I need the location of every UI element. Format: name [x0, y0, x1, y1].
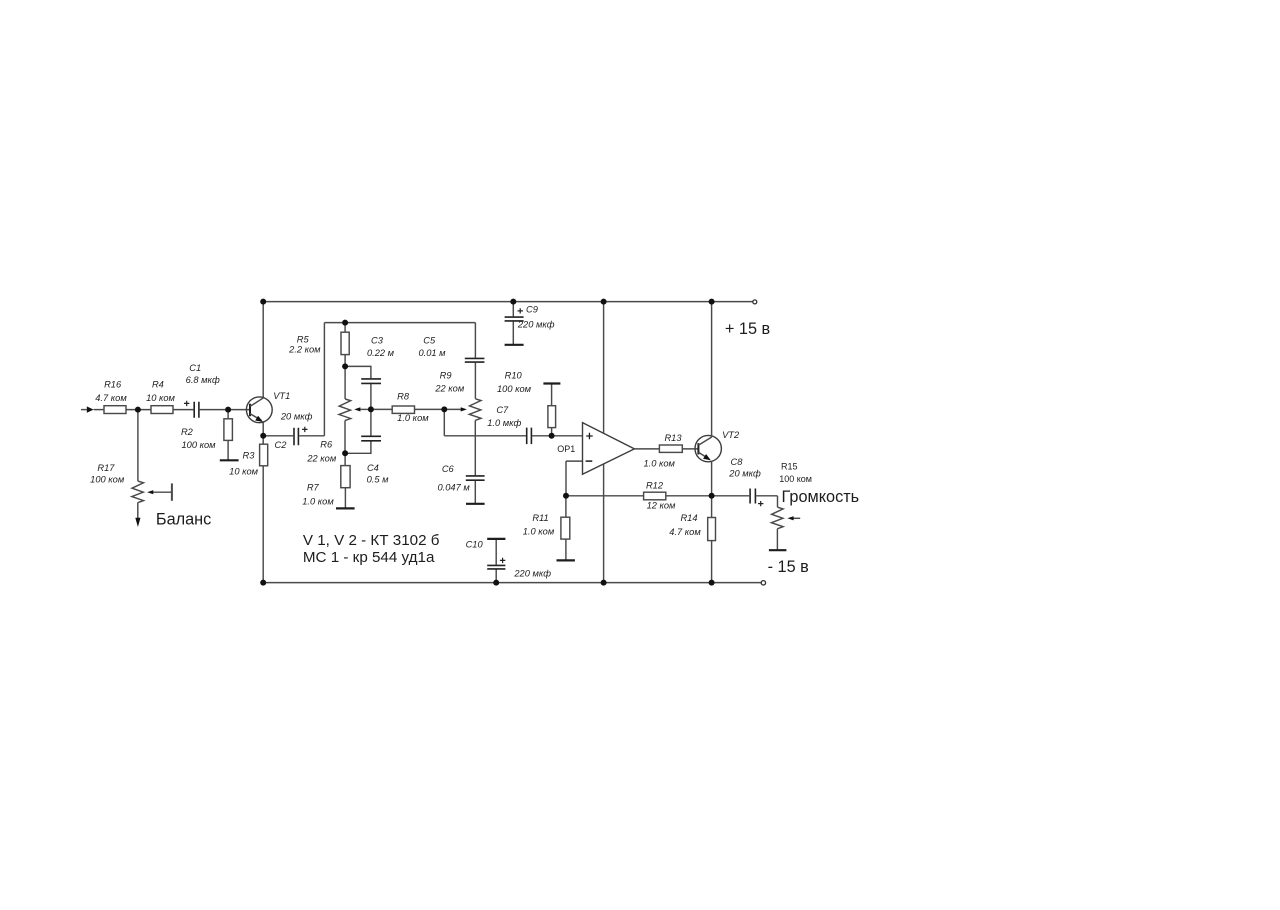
- svg-text:C1: C1: [189, 363, 201, 373]
- ground bar C6: [466, 503, 485, 505]
- wire VT1 emitter to node E1: [262, 422, 264, 436]
- svg-text:R16: R16: [104, 380, 122, 390]
- wire C10 stem top: [495, 539, 497, 565]
- resistor R5: [341, 332, 349, 354]
- svg-text:100 ком: 100 ком: [90, 474, 125, 484]
- capacitor C7 plates: [527, 428, 532, 445]
- svg-text:1.0 ком: 1.0 ком: [397, 413, 429, 423]
- open terminal bottom rail: [761, 581, 765, 585]
- svg-text:2.2 ком: 2.2 ком: [288, 345, 321, 355]
- node dot A input: [135, 407, 141, 413]
- svg-text:R6: R6: [320, 440, 333, 450]
- transistor VT2 emitter arrowhead: [703, 454, 711, 460]
- node dot rail2 R5: [342, 320, 348, 326]
- wire R17 to down arrow: [137, 503, 139, 519]
- wire R4 to C1: [173, 409, 193, 411]
- wire R11 to ground bar: [565, 539, 567, 560]
- capacitor C10 plus: [500, 558, 505, 563]
- transistor VT2 base bar: [697, 443, 699, 454]
- wire feedback node F1 to R12: [566, 495, 644, 497]
- svg-text:- 15 в: - 15 в: [768, 558, 809, 576]
- svg-text:20 мкф: 20 мкф: [728, 469, 761, 479]
- svg-text:R3: R3: [243, 451, 256, 461]
- capacitor C10 plates: [487, 565, 505, 569]
- wire node B to R2: [227, 410, 229, 419]
- op-amp plus sign: [586, 433, 593, 439]
- svg-text:V 1, V 2 - КТ 3102 б: V 1, V 2 - КТ 3102 б: [303, 532, 440, 549]
- wire node D to R7: [344, 453, 346, 465]
- svg-text:R13: R13: [664, 433, 682, 443]
- potentiometer R9 zigzag: [469, 399, 481, 421]
- svg-text:C8: C8: [731, 457, 744, 467]
- svg-text:МС 1 - кр 544 уд1а: МС 1 - кр 544 уд1а: [303, 549, 435, 566]
- svg-text:Громкость: Громкость: [782, 488, 860, 506]
- svg-text:1.0 ком: 1.0 ком: [523, 527, 555, 537]
- transistor VT1 emitter diagonal: [250, 414, 262, 421]
- wire R15 to ground bar: [776, 529, 778, 550]
- transistor VT1 circle: [246, 397, 272, 423]
- transistor VT2 circle: [695, 435, 721, 461]
- wire C3 to wiper node W1: [370, 384, 372, 409]
- ground bar R11: [557, 559, 575, 561]
- svg-text:Баланс: Баланс: [156, 511, 211, 529]
- resistor R10: [548, 406, 556, 428]
- wire node C to C3: [345, 366, 371, 378]
- svg-text:220 мкф: 220 мкф: [517, 320, 555, 330]
- wiper arrowhead R15: [787, 516, 793, 520]
- svg-text:22 ком: 22 ком: [434, 384, 464, 394]
- resistor R11: [561, 517, 570, 539]
- svg-text:C9: C9: [526, 305, 538, 315]
- svg-text:R15: R15: [781, 462, 798, 472]
- wire C9 stem top: [512, 302, 514, 317]
- capacitor C1 plates: [194, 402, 199, 418]
- node dot W2 R9 wiper: [441, 406, 447, 412]
- svg-text:R8: R8: [397, 392, 410, 402]
- wire C5 to R9: [474, 363, 476, 399]
- op-amp OP1 triangle: [583, 423, 635, 475]
- svg-text:1.0 ком: 1.0 ком: [643, 458, 675, 468]
- svg-text:10 ком: 10 ком: [229, 467, 258, 477]
- wire R14 to bottom rail: [711, 541, 713, 583]
- wire R7 to ground bar: [344, 488, 346, 509]
- wiper arrowhead R6: [354, 407, 360, 411]
- svg-text:220 мкф: 220 мкф: [513, 569, 551, 579]
- capacitor C9 plates: [505, 317, 524, 321]
- transistor VT1 collector diagonal: [250, 398, 264, 407]
- svg-text:C6: C6: [442, 464, 455, 474]
- op-amp minus sign: [586, 460, 593, 462]
- svg-text:4.7 ком: 4.7 ком: [669, 527, 701, 537]
- resistor R13: [659, 445, 682, 452]
- svg-text:6.8 мкф: 6.8 мкф: [186, 375, 220, 385]
- terminal bar R17 wiper: [171, 483, 173, 500]
- svg-text:C7: C7: [496, 405, 509, 415]
- svg-text:R2: R2: [181, 427, 194, 437]
- wire rail2 corner down to C5: [474, 323, 476, 358]
- svg-text:20 мкф: 20 мкф: [280, 412, 313, 422]
- resistor R7: [341, 466, 350, 488]
- resistor R16: [104, 406, 126, 414]
- wire node F2 to R14: [711, 496, 713, 518]
- node dot VT2 emitter net on bottom rail: [709, 580, 715, 586]
- svg-text:R9: R9: [440, 371, 452, 381]
- wire C1 to VT1 base through node B: [200, 409, 250, 411]
- svg-text:R4: R4: [152, 380, 164, 390]
- node dot P plus input: [549, 433, 555, 439]
- svg-text:C3: C3: [371, 335, 384, 345]
- wire R2 to ground bar: [227, 440, 229, 460]
- wire node F2 to C8: [712, 495, 750, 497]
- wiper arrowhead R17: [147, 490, 153, 494]
- wire C8 to R15: [756, 495, 777, 497]
- ground bar C9: [505, 344, 524, 346]
- down arrowhead R17 balance output: [135, 518, 140, 527]
- wire second rail: [324, 322, 475, 324]
- capacitor C4 plates: [361, 436, 381, 441]
- svg-text:0.01 м: 0.01 м: [418, 348, 446, 358]
- wire down to R15: [777, 496, 779, 507]
- R10 stem bottom to node P: [551, 428, 553, 436]
- wire C6 to end bar: [474, 481, 476, 504]
- wire node W1 to C4: [370, 409, 372, 435]
- terminal bar C10: [487, 538, 505, 540]
- wire R5 to node C: [344, 355, 346, 367]
- wire top +15V rail: [263, 301, 753, 303]
- node dot VT2 collector on top rail: [709, 299, 715, 305]
- node dot E1 emitter: [260, 433, 266, 439]
- wire C10 stem bottom: [495, 570, 497, 583]
- wire R3 to bottom rail: [262, 466, 264, 583]
- terminal bar R10: [543, 382, 560, 384]
- svg-text:R14: R14: [680, 513, 697, 523]
- capacitor C9 plus: [518, 308, 523, 313]
- svg-text:R10: R10: [505, 371, 523, 381]
- wire VT2 emitter down to node F2: [711, 462, 713, 496]
- node dot F1 feedback left: [563, 493, 569, 499]
- node dot mid rail top: [601, 299, 607, 305]
- wire node W2 to C7: [444, 435, 526, 437]
- svg-text:0.22 м: 0.22 м: [367, 348, 395, 358]
- node dot top rail left corner: [260, 299, 266, 305]
- svg-text:10 ком: 10 ком: [146, 393, 175, 403]
- ground bar R7: [336, 507, 355, 509]
- wire node E1 to R3: [262, 436, 264, 444]
- capacitor C2 plus: [302, 427, 307, 432]
- svg-text:C10: C10: [466, 539, 484, 549]
- svg-text:R12: R12: [646, 480, 664, 490]
- wire input line: [81, 409, 87, 411]
- wire minus input down to feedback node F1: [565, 461, 567, 496]
- wire bottom -15V rail: [263, 582, 761, 584]
- svg-text:4.7 ком: 4.7 ком: [95, 393, 127, 403]
- capacitor C2 plates: [294, 428, 298, 445]
- potentiometer R15 zigzag: [771, 507, 783, 529]
- transistor VT2 collector diagonal: [698, 437, 712, 445]
- svg-text:100 ком: 100 ком: [779, 474, 812, 484]
- svg-text:1.0 мкф: 1.0 мкф: [487, 418, 521, 428]
- open terminal top rail: [753, 300, 757, 304]
- transistor VT2 emitter diagonal: [698, 452, 708, 458]
- capacitor C1 plus: [184, 401, 189, 406]
- svg-text:OP1: OP1: [557, 444, 575, 454]
- op-amp U1 minus input wire: [566, 460, 583, 462]
- R10 stem top: [551, 384, 553, 406]
- svg-text:100 ком: 100 ком: [181, 440, 216, 450]
- svg-text:C4: C4: [367, 463, 379, 473]
- node dot C below R5: [342, 363, 348, 369]
- svg-text:0.047 м: 0.047 м: [437, 483, 470, 493]
- wire op-amp output to R13: [634, 448, 659, 450]
- resistor R14: [708, 518, 716, 541]
- node dot bottom rail left corner: [260, 580, 266, 586]
- ground bar R15: [769, 549, 787, 551]
- svg-text:0.5 м: 0.5 м: [367, 475, 390, 485]
- svg-text:C2: C2: [275, 440, 288, 450]
- capacitor C3 plates: [361, 379, 381, 384]
- node dot D below R6: [342, 450, 348, 456]
- svg-text:C5: C5: [423, 335, 436, 345]
- wire node W1 to R8: [371, 408, 392, 410]
- node dot C10 on bottom rail: [493, 580, 499, 586]
- wire C4 to node D: [345, 441, 371, 453]
- capacitor C8 plus: [758, 501, 763, 506]
- wire middle vertical rail through op-amp: [603, 302, 605, 583]
- wire R17 wiper: [153, 491, 172, 493]
- wire C2 from emitter node: [263, 435, 293, 437]
- transistor VT1 emitter arrowhead: [255, 416, 263, 422]
- capacitor C8 plates: [750, 489, 755, 504]
- node dot W1 R6 wiper: [368, 406, 374, 412]
- wire R6 to node D: [344, 421, 346, 454]
- wire left vertical VT1 collector to rail: [262, 302, 264, 398]
- wire C2 right to riser: [299, 435, 324, 437]
- wire R13 to VT2 base: [682, 448, 698, 450]
- wire R9 to C6: [474, 420, 476, 475]
- svg-text:R5: R5: [297, 335, 310, 345]
- wire R6 wiper from node W1: [361, 408, 371, 410]
- wire node W2 down to C7 line: [443, 409, 445, 435]
- node dot F2 feedback right: [709, 493, 715, 499]
- svg-text:22 ком: 22 ком: [306, 454, 336, 464]
- svg-text:+ 15 в: + 15 в: [725, 320, 770, 338]
- wire input to R16: [94, 409, 104, 411]
- wiper arrowhead R9: [461, 407, 467, 411]
- resistor R3: [260, 444, 268, 466]
- transistor VT1 base bar: [249, 404, 251, 417]
- wire R15 wiper tail: [793, 517, 800, 519]
- resistor R4: [151, 406, 173, 414]
- node dot mid rail bottom: [601, 580, 607, 586]
- node dot C9 on top rail: [510, 299, 516, 305]
- svg-text:1.0 ком: 1.0 ком: [302, 497, 334, 507]
- wire rail2 to R5: [344, 323, 346, 333]
- resistor R8: [392, 406, 414, 413]
- resistor R12: [644, 492, 666, 500]
- wire VT2 collector to top rail: [711, 302, 713, 437]
- resistor R2: [224, 419, 233, 441]
- wire riser up to second rail: [323, 323, 325, 436]
- capacitor C5 plates: [465, 358, 485, 362]
- wire R8 to node W2: [415, 408, 445, 410]
- capacitor C6 plates: [466, 476, 485, 480]
- svg-text:VT2: VT2: [722, 430, 740, 440]
- wire node F1 to R11: [565, 496, 567, 517]
- svg-text:100 ком: 100 ком: [497, 384, 532, 394]
- svg-text:R11: R11: [532, 513, 548, 523]
- svg-text:R17: R17: [97, 463, 115, 473]
- potentiometer R17 zigzag: [132, 481, 144, 503]
- wire node W2 wiper arrow tail to R9: [444, 408, 461, 410]
- wire node C to R6: [344, 366, 346, 399]
- wire C9 stem bottom: [512, 322, 514, 345]
- wire node A down to R17: [137, 410, 139, 482]
- wire R16 to R4 through node A: [126, 409, 151, 411]
- wire C7 to op-amp plus input: [532, 435, 582, 437]
- node dot B base: [225, 407, 231, 413]
- wire R12 to node F2: [666, 495, 712, 497]
- svg-text:R7: R7: [307, 482, 320, 492]
- ground bar R2: [220, 459, 239, 461]
- potentiometer R6 zigzag: [339, 399, 351, 421]
- svg-text:VT1: VT1: [273, 391, 290, 401]
- svg-text:12 ком: 12 ком: [647, 501, 676, 511]
- input arrowhead: [87, 406, 94, 412]
